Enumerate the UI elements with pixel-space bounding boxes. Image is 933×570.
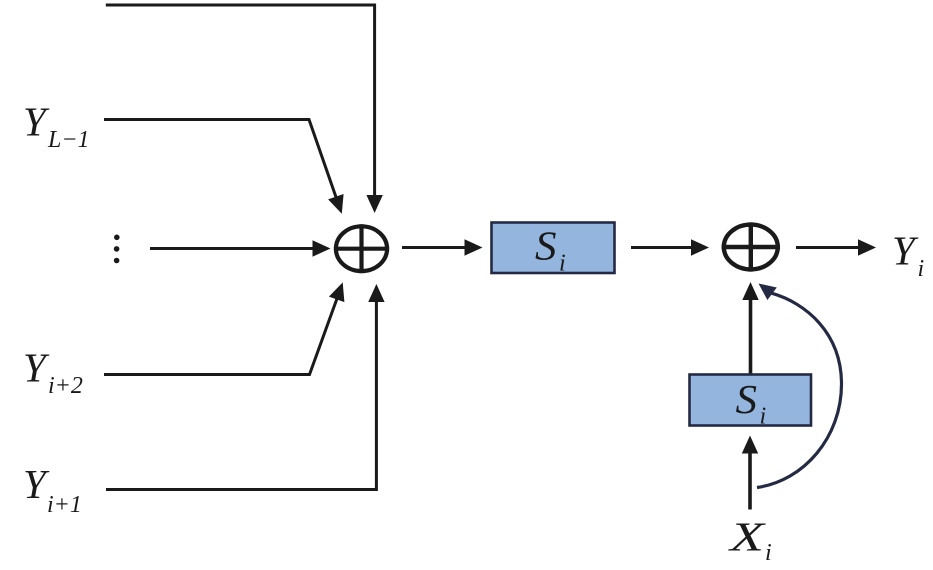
svg-text:i: i bbox=[760, 404, 767, 430]
wire S-box to XOR2 bbox=[631, 239, 709, 255]
svg-text:Y: Y bbox=[23, 461, 50, 507]
node Y_L-1 label bbox=[23, 99, 90, 154]
svg-text:i: i bbox=[918, 256, 925, 282]
ellipsis (more taps) bbox=[114, 235, 120, 264]
wire XOR1 to S-box bbox=[402, 239, 483, 255]
svg-text:i: i bbox=[559, 251, 566, 277]
wire ellipsis into XOR1 bbox=[150, 240, 331, 256]
node Y_i output label bbox=[892, 228, 924, 283]
wire X_i into S-box2 bbox=[742, 436, 758, 510]
wire feedback top (Y_0 tap) bbox=[106, 5, 383, 213]
svg-text:Y: Y bbox=[23, 345, 50, 391]
svg-text:X: X bbox=[727, 514, 766, 560]
node X_i input label bbox=[727, 514, 771, 567]
svg-text:i+1: i+1 bbox=[47, 492, 82, 518]
wire S-box2 to XOR2 bbox=[742, 282, 758, 374]
S-box S_i (state) bbox=[690, 375, 812, 430]
svg-text:L−1: L−1 bbox=[47, 127, 90, 153]
feedforward arc X_i to XOR2 bbox=[757, 284, 842, 488]
svg-text:S: S bbox=[535, 223, 557, 269]
wire from Y_i+1 into XOR1 bbox=[106, 284, 385, 490]
S-box S_i (keystream) bbox=[492, 223, 615, 277]
svg-text:Y: Y bbox=[892, 228, 919, 274]
wire from Y_i+2 into XOR1 bbox=[104, 282, 344, 374]
svg-text:S: S bbox=[736, 376, 758, 422]
node Y_i+1 label bbox=[23, 461, 82, 518]
svg-text:i: i bbox=[765, 540, 772, 566]
svg-text:Y: Y bbox=[23, 99, 50, 145]
node Y_i+2 label bbox=[23, 345, 83, 400]
XOR gate 2 bbox=[722, 222, 780, 271]
svg-text:i+2: i+2 bbox=[48, 373, 83, 399]
wire from Y_L-1 into XOR1 bbox=[104, 120, 344, 214]
wire XOR2 to output Y_i bbox=[796, 239, 876, 255]
XOR gate 1 bbox=[334, 224, 389, 273]
